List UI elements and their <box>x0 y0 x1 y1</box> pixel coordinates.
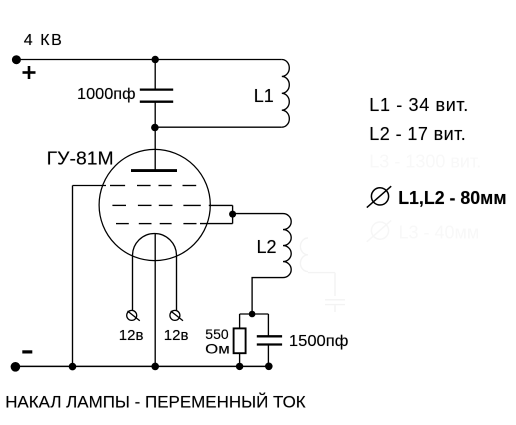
wire grid3 stub <box>200 223 233 225</box>
plus polarity symbol <box>23 66 36 79</box>
inductor L1 <box>282 60 290 128</box>
svg-text:L1,L2 - 80мм: L1,L2 - 80мм <box>398 188 506 208</box>
junction bus / grid drop <box>69 363 77 371</box>
wire R1 C2 top tie <box>240 313 269 315</box>
svg-text:12в: 12в <box>164 327 189 344</box>
wire L2 top <box>233 213 283 215</box>
svg-text:12в: 12в <box>119 327 144 344</box>
junction top bus / C1 <box>152 56 159 63</box>
inductor L2 <box>283 214 291 278</box>
svg-text:L1: L1 <box>254 86 274 106</box>
svg-text:L1 - 34 вит.: L1 - 34 вит. <box>369 95 468 115</box>
wire bottom bus <box>15 365 272 367</box>
diameter symbol <box>367 186 391 207</box>
tube V1 cathode heater dome <box>133 234 177 256</box>
junction grids / L2 <box>229 211 236 218</box>
terminal heater right 12в <box>170 310 183 320</box>
wire C1 lower lead <box>154 103 156 128</box>
tube V1 anode plate <box>131 169 177 172</box>
svg-text:L3 - 1300 вит.: L3 - 1300 вит. <box>369 152 481 172</box>
terminal heater left 12в <box>127 310 140 320</box>
resistor R1 550 Ом <box>234 328 246 353</box>
wire anode lead <box>154 127 156 169</box>
capacitor C1 1000пф <box>140 90 173 102</box>
junction bus / R1 <box>236 363 243 370</box>
svg-text:L2 - 17 вит.: L2 - 17 вит. <box>369 124 466 144</box>
minus polarity symbol <box>22 350 32 353</box>
svg-text:L3 - 40мм: L3 - 40мм <box>399 223 480 243</box>
wire grid1 down drop <box>72 186 74 367</box>
node minus terminal <box>11 362 21 372</box>
wire grid tie bracket <box>232 205 234 223</box>
svg-text:НАКАЛ ЛАМПЫ - ПЕРЕМЕННЫЙ ТОК: НАКАЛ ЛАМПЫ - ПЕРЕМЕННЫЙ ТОК <box>5 393 306 412</box>
ghost erased coil <box>300 238 345 312</box>
wire heater left lead <box>132 256 134 311</box>
tube V1 grid 1 <box>110 185 196 187</box>
junction bus / C2 <box>265 363 273 371</box>
junction L2 / R1 / C2 <box>249 311 256 318</box>
wire heater right lead <box>176 256 178 311</box>
tube V1 grid 2 <box>112 204 200 206</box>
svg-text:Ом: Ом <box>205 341 230 357</box>
node plus HV terminal <box>12 55 21 64</box>
wire cathode center tap <box>154 234 156 367</box>
wire R1 bottom lead <box>239 353 241 366</box>
svg-text:ГУ-81М: ГУ-81М <box>47 149 114 169</box>
svg-text:1500пф: 1500пф <box>289 333 349 350</box>
ghost erased label D L3 - 40мм <box>367 220 391 241</box>
tube V1 envelope <box>99 149 210 260</box>
svg-text:1000пф: 1000пф <box>77 86 136 103</box>
wire C1 upper lead <box>154 60 156 89</box>
tube V1 grid 3 <box>116 223 197 225</box>
wire L1 bottom return <box>155 126 282 128</box>
wire grid2 stub <box>209 204 233 206</box>
capacitor C2 1500пф <box>257 336 282 344</box>
junction bus / cathode tap <box>151 363 159 371</box>
wire R1 top lead <box>239 314 241 328</box>
wire C2 top lead <box>267 314 269 336</box>
svg-text:550: 550 <box>205 326 229 342</box>
svg-text:4 КВ: 4 КВ <box>24 32 62 49</box>
wire C2 bottom lead <box>267 345 269 366</box>
wire top bus <box>17 59 282 61</box>
svg-text:L2: L2 <box>257 237 277 257</box>
wire grid1 lead left <box>73 185 107 187</box>
wire L2 bottom return <box>252 278 283 314</box>
junction C1 / L1 / anode <box>151 124 159 132</box>
